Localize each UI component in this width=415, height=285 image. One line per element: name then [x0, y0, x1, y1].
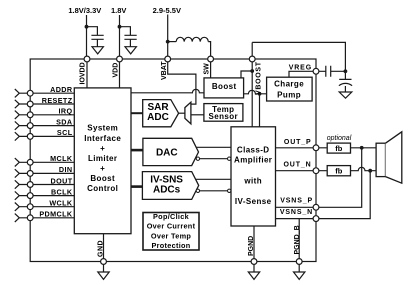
svg-text:Boost: Boost [90, 174, 115, 183]
svg-text:1.8V/3.3V: 1.8V/3.3V [68, 6, 101, 15]
svg-text:RESETZ: RESETZ [42, 96, 73, 105]
svg-text:1.8V: 1.8V [111, 6, 126, 15]
svg-text:VSNS_N: VSNS_N [280, 209, 313, 216]
svg-text:Pop/Click: Pop/Click [153, 212, 190, 221]
svg-text:VREG: VREG [289, 65, 312, 72]
svg-text:Sensor: Sensor [209, 112, 239, 121]
svg-text:OUT_N: OUT_N [284, 162, 312, 169]
svg-text:SW: SW [204, 63, 211, 75]
svg-text:IRQ: IRQ [59, 107, 73, 116]
svg-text:BCLK: BCLK [51, 187, 73, 196]
svg-text:2.9-5.5V: 2.9-5.5V [153, 6, 181, 15]
svg-text:ADCs: ADCs [153, 185, 181, 196]
svg-text:Boost: Boost [212, 82, 237, 91]
svg-text:OUT_P: OUT_P [284, 139, 312, 146]
svg-text:fb: fb [335, 167, 342, 176]
svg-text:Pump: Pump [277, 91, 301, 100]
svg-text:+: + [100, 164, 105, 173]
svg-text:DOUT: DOUT [51, 176, 73, 185]
svg-text:Limiter: Limiter [88, 154, 117, 163]
svg-text:VBAT: VBAT [161, 61, 168, 80]
svg-text:ADC: ADC [147, 112, 169, 123]
svg-text:DIN: DIN [59, 165, 73, 174]
svg-text:Over Current: Over Current [147, 222, 196, 231]
svg-text:System: System [87, 124, 118, 133]
svg-text:optional: optional [327, 135, 352, 142]
svg-text:with: with [243, 176, 262, 185]
svg-text:IV-Sense: IV-Sense [235, 197, 272, 206]
svg-text:Protection: Protection [151, 241, 190, 250]
svg-text:Interface: Interface [84, 134, 121, 143]
svg-text:PDMCLK: PDMCLK [39, 210, 73, 219]
svg-text:VDD: VDD [112, 63, 119, 78]
svg-text:IOVDD: IOVDD [79, 62, 86, 84]
svg-text:GND: GND [97, 240, 104, 257]
svg-text:DAC: DAC [156, 148, 178, 159]
svg-text:WCLK: WCLK [49, 199, 73, 208]
svg-text:Charge: Charge [274, 79, 304, 88]
svg-text:Over Temp: Over Temp [151, 231, 192, 240]
svg-text:Amplifier: Amplifier [234, 156, 272, 165]
svg-text:SCL: SCL [57, 128, 73, 137]
svg-text:Control: Control [87, 184, 118, 193]
svg-text:VBOOST: VBOOST [256, 61, 263, 95]
svg-text:SDA: SDA [56, 117, 72, 126]
svg-text:fb: fb [335, 144, 342, 153]
svg-text:PGND: PGND [248, 236, 255, 256]
svg-text:VSNS_P: VSNS_P [280, 198, 313, 205]
svg-text:ADDR: ADDR [50, 85, 73, 94]
svg-text:Class-D: Class-D [237, 146, 270, 155]
svg-text:MCLK: MCLK [50, 154, 73, 163]
svg-text:+: + [100, 144, 105, 153]
svg-text:PGND_B: PGND_B [294, 225, 301, 254]
